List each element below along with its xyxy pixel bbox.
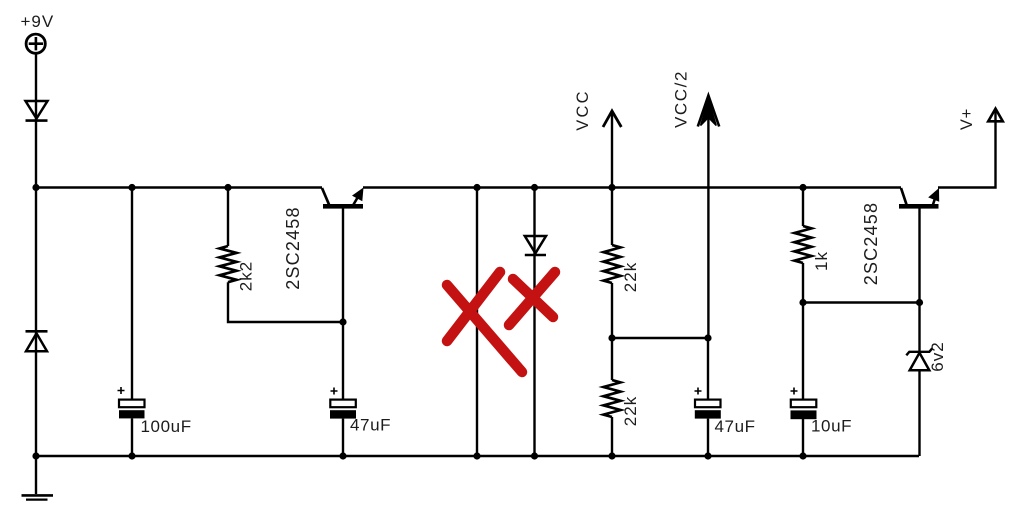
- wire between 22k resistors: [611, 283, 613, 380]
- node Q1 base / R1: [339, 318, 346, 325]
- svg-text:VCC: VCC: [574, 89, 592, 130]
- wire C4 branch: [802, 303, 804, 457]
- wire 100uF branch: [131, 188, 133, 457]
- transistor Q2 2SC2458: [899, 188, 939, 209]
- node gnd-R3: [608, 452, 615, 459]
- wire C2 bottom lead: [342, 419, 344, 456]
- node gnd-C4: [799, 452, 806, 459]
- wire from +9V terminal to rail: [35, 54, 37, 188]
- wire zener branch: [918, 303, 920, 457]
- diode D2: [26, 331, 48, 351]
- capacitor C1 100uF: [118, 387, 145, 418]
- wire Q1 base down: [342, 209, 344, 400]
- wire 2k2 top lead: [227, 188, 229, 247]
- svg-text:100uF: 100uF: [141, 417, 192, 436]
- node rail-left: [32, 184, 39, 191]
- svg-text:1k: 1k: [812, 251, 831, 271]
- node rail-VCC: [608, 184, 615, 191]
- transistor Q1 2SC2458: [322, 188, 364, 209]
- node Q2 base / zener: [916, 299, 923, 306]
- svg-text:+9V: +9V: [21, 12, 55, 31]
- node gnd-link1: [473, 452, 480, 459]
- svg-text:2SC2458: 2SC2458: [861, 202, 881, 285]
- VCC arrow: [603, 111, 621, 188]
- node gnd-C3: [704, 452, 711, 459]
- wire ground stub: [35, 456, 37, 494]
- node rail-C1: [128, 184, 135, 191]
- red X mark large: [447, 272, 522, 372]
- power terminal +9V: [26, 34, 45, 53]
- svg-text:10uF: 10uF: [811, 417, 852, 436]
- V+ arrow: [988, 109, 1003, 122]
- svg-text:2SC2458: 2SC2458: [283, 206, 303, 289]
- wire top rail middle section: [363, 186, 901, 188]
- svg-text:22k: 22k: [621, 396, 640, 426]
- svg-text:2k2: 2k2: [237, 261, 256, 291]
- ground: [22, 495, 54, 499]
- wire Q2 base down: [918, 209, 920, 303]
- wire bottom rail: [36, 455, 919, 457]
- svg-text:VCC/2: VCC/2: [672, 70, 691, 128]
- red X mark small: [509, 272, 555, 325]
- red deletion marks: [447, 272, 555, 372]
- wire diode link (crossed out): [533, 188, 535, 457]
- zener diode Z1 6v2: [906, 348, 932, 370]
- node divider mid left: [608, 334, 615, 341]
- wire top rail left section: [36, 186, 322, 188]
- capacitor C3 47uF: [695, 388, 721, 419]
- node gnd-link2: [531, 452, 538, 459]
- svg-text:6v2: 6v2: [928, 341, 947, 371]
- svg-text:47uF: 47uF: [350, 416, 391, 435]
- resistor R1 2k2: [220, 246, 237, 282]
- node gnd-C2: [339, 452, 346, 459]
- resistor R3 22k lower: [604, 380, 621, 417]
- wire 2k2 bottom lead to base node: [228, 282, 343, 322]
- svg-text:47uF: 47uF: [715, 417, 756, 436]
- wire left branch down: [35, 188, 37, 457]
- svg-text:V+: V+: [958, 108, 976, 130]
- wire base net Q2: [803, 301, 920, 303]
- node rail-link1: [473, 184, 480, 191]
- wire C3 bottom lead: [707, 419, 709, 456]
- node rail-R1: [224, 184, 231, 191]
- node R4-C4: [799, 299, 806, 306]
- capacitor C4 10uF: [791, 388, 817, 420]
- wire 22k lower bottom lead: [611, 417, 613, 456]
- node divider mid right: [704, 334, 711, 341]
- svg-text:22k: 22k: [621, 262, 640, 292]
- wire divider midpoint: [612, 337, 708, 339]
- node rail-R4: [799, 184, 806, 191]
- resistor R2 22k upper: [604, 245, 621, 283]
- node gnd-left: [32, 452, 39, 459]
- wire top rail right section to V+: [938, 111, 996, 188]
- diode D3: [525, 236, 546, 255]
- node rail-link2: [531, 184, 538, 191]
- wire 22k upper lead: [611, 188, 613, 246]
- wire 1k top lead: [802, 188, 804, 227]
- wire C3 top lead: [707, 338, 709, 400]
- VCC/2 arrow: [698, 96, 719, 339]
- wire 1k bottom lead: [802, 263, 804, 303]
- wire shorting link (crossed out): [476, 188, 478, 457]
- node gnd-C1: [128, 452, 135, 459]
- resistor R4 1k: [795, 226, 812, 263]
- diode D1: [26, 101, 48, 121]
- capacitor C2 47uF: [330, 388, 356, 419]
